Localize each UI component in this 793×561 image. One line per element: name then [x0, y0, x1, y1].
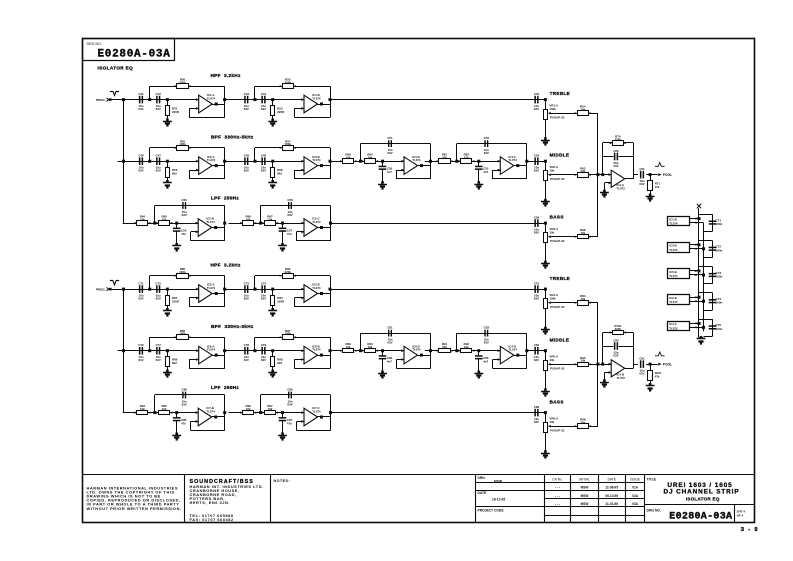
capacitor C75	[534, 285, 536, 293]
summing bus wire	[597, 113, 599, 237]
input bus wire	[123, 289, 125, 413]
capacitor C71	[139, 285, 141, 293]
wire	[646, 174, 658, 176]
capacitor C45	[534, 96, 536, 104]
resistor R83	[272, 289, 274, 295]
svg-text:63V: 63V	[639, 182, 644, 186]
svg-text:10k: 10k	[580, 359, 585, 363]
svg-text:10k: 10k	[162, 218, 167, 222]
resistor R98	[578, 424, 589, 429]
op-amp IC1-A	[199, 95, 213, 113]
feedback wire	[260, 206, 262, 224]
feedback wire	[456, 144, 458, 162]
capacitor C54	[534, 157, 536, 165]
resistor R80	[177, 274, 189, 279]
svg-text:C54: C54	[534, 154, 540, 158]
op-amp IC2-B	[304, 285, 318, 303]
svg-text:47k: 47k	[655, 185, 660, 189]
resistor R58	[272, 161, 274, 167]
svg-text:8k2: 8k2	[172, 171, 177, 175]
op-amp IC3-B	[304, 157, 318, 175]
svg-text:220k: 220k	[615, 327, 622, 331]
svg-text:8k2: 8k2	[172, 361, 177, 365]
resistor R101	[650, 364, 652, 370]
svg-text:TL072: TL072	[669, 326, 678, 330]
svg-text:63V: 63V	[244, 296, 249, 300]
op-amp IC6-A	[199, 346, 213, 364]
node R65/C55	[175, 222, 178, 225]
node C78/C79	[254, 349, 257, 352]
svg-text:10k: 10k	[268, 407, 273, 411]
node C76/C77	[148, 349, 151, 352]
resistor R52	[283, 84, 294, 89]
svg-text:DRN.: DRN.	[478, 476, 486, 480]
capacitor C85	[176, 413, 178, 418]
resistor R71	[650, 175, 652, 181]
svg-text:- - -: - - -	[555, 502, 560, 506]
capacitor C72	[156, 285, 158, 293]
svg-text:PROG,: PROG,	[96, 287, 106, 291]
capacitor C51	[388, 140, 389, 147]
svg-text:C83: C83	[484, 326, 490, 330]
ground	[0, 0, 1, 1]
wire	[514, 165, 527, 167]
svg-text:100k: 100k	[285, 142, 292, 146]
capacitor C83	[484, 330, 485, 337]
svg-text:220k: 220k	[285, 81, 292, 85]
capacitor C81	[388, 330, 389, 337]
capacitor C46	[139, 157, 141, 165]
svg-text:C79: C79	[261, 343, 267, 347]
wiper wire	[551, 364, 578, 366]
pin V+ IC1-B	[690, 218, 699, 220]
svg-text:63V: 63V	[484, 151, 489, 155]
resistor R94	[137, 411, 148, 415]
svg-text:TL074: TL074	[312, 158, 321, 162]
svg-text:C81: C81	[387, 326, 393, 330]
svg-text:63V: 63V	[534, 230, 539, 234]
op-amp IC4-D	[500, 346, 514, 364]
resistor R57	[283, 146, 294, 151]
ground	[0, 0, 1, 1]
svg-text:NOTES:: NOTES:	[274, 479, 290, 483]
op-amp power block IC1-B	[668, 217, 690, 226]
op-amp IC3-D	[404, 157, 418, 175]
svg-text:C74: C74	[261, 282, 267, 286]
potentiometer VR2-A	[545, 161, 547, 171]
node R67/C57	[281, 222, 284, 225]
capacitor C57	[282, 223, 284, 228]
svg-text:10k: 10k	[549, 420, 554, 424]
capacitor C73	[709, 273, 717, 275]
op-amp IC5-C	[304, 219, 318, 237]
resistor R92	[461, 349, 472, 353]
wire	[118, 289, 199, 291]
resistor R64	[137, 221, 148, 226]
svg-text:WITHOUT PRIOR WRITTEN PERMISSI: WITHOUT PRIOR WRITTEN PERMISSION.	[87, 506, 182, 511]
svg-text:10k: 10k	[442, 345, 447, 349]
svg-text:PVGAP-32: PVGAP-32	[550, 239, 565, 243]
resistor R91	[439, 349, 451, 353]
svg-text:TL074: TL074	[312, 96, 321, 100]
svg-text:100k: 100k	[549, 107, 556, 111]
svg-text:10k: 10k	[140, 218, 145, 222]
wire	[425, 350, 501, 352]
wire	[330, 99, 545, 101]
svg-text:16-12-95: 16-12-95	[492, 497, 505, 501]
summing bus wire	[597, 303, 599, 427]
svg-text:10k: 10k	[246, 407, 251, 411]
svg-text:63V: 63V	[613, 353, 618, 357]
node C46/C47	[148, 160, 151, 163]
wire	[329, 350, 405, 352]
resistor R82	[283, 274, 294, 279]
svg-text:DRG NO.: DRG NO.	[87, 42, 102, 46]
feedback wire	[360, 333, 362, 351]
svg-text:220R: 220R	[277, 299, 285, 303]
svg-text:DJ CHANNEL STRIP: DJ CHANNEL STRIP	[663, 488, 739, 495]
resistor R54	[578, 111, 589, 116]
svg-text:10k: 10k	[580, 169, 585, 173]
ground	[544, 137, 547, 140]
wire	[229, 223, 305, 225]
svg-text:3 - 9: 3 - 9	[741, 527, 759, 533]
svg-text:MSW: MSW	[581, 502, 589, 506]
node C43/C44	[254, 98, 257, 101]
resistor R81	[167, 289, 169, 295]
svg-text:C77: C77	[156, 343, 162, 347]
capacitor C50	[382, 161, 384, 166]
wiper wire	[588, 113, 598, 115]
svg-text:10k: 10k	[346, 345, 351, 349]
capacitor C78	[244, 347, 246, 355]
output node POOL	[658, 173, 661, 176]
node R64/R65	[153, 222, 156, 225]
ground	[0, 0, 1, 1]
svg-text:47n: 47n	[287, 232, 292, 236]
svg-text:10k: 10k	[162, 407, 167, 411]
feedback wire	[149, 86, 151, 99]
wire	[212, 104, 225, 106]
svg-text:MSW: MSW	[581, 494, 589, 498]
svg-text:TL074: TL074	[669, 274, 678, 278]
wire decoupling IC3-B	[699, 240, 713, 242]
wire	[418, 355, 431, 357]
svg-text:C75: C75	[534, 282, 540, 286]
resistor R68	[578, 235, 589, 239]
svg-text:TL074: TL074	[669, 248, 678, 252]
resistor R51	[167, 100, 169, 106]
svg-text:63V: 63V	[182, 213, 187, 217]
svg-text:4n7: 4n7	[387, 170, 392, 174]
svg-text:63V: 63V	[387, 340, 392, 344]
svg-text:MSW: MSW	[581, 486, 589, 490]
capacitor C41	[139, 96, 141, 104]
svg-text:PROG,: PROG,	[96, 98, 106, 102]
node C49/R58	[271, 160, 274, 163]
svg-text:220R: 220R	[277, 110, 285, 114]
resistor R70	[613, 141, 624, 146]
potentiometer VR1-A	[545, 100, 547, 110]
svg-text:4n7: 4n7	[387, 359, 392, 363]
pin V+ IC5-B	[690, 270, 699, 272]
svg-text:63V: 63V	[287, 213, 292, 217]
svg-text:C76: C76	[138, 343, 144, 347]
svg-text:E0280A-03A: E0280A-03A	[98, 49, 171, 61]
svg-text:TL074: TL074	[669, 222, 678, 226]
wiper wire	[588, 302, 598, 304]
wire	[110, 99, 124, 101]
input bus junction	[122, 288, 125, 291]
wire	[318, 293, 331, 295]
resistor R93	[578, 363, 589, 367]
op-amp IC1-B	[304, 95, 318, 113]
ground	[544, 327, 547, 330]
feedback wire	[154, 206, 156, 224]
svg-text:C46: C46	[138, 154, 144, 158]
resistor R89	[343, 349, 354, 353]
op-amp IC6-B	[304, 346, 318, 364]
resistor R50	[177, 84, 189, 89]
svg-text:01A: 01A	[632, 486, 639, 490]
svg-text:10k: 10k	[246, 218, 251, 222]
capacitor C88	[288, 392, 289, 399]
wire	[699, 337, 703, 339]
feedback wire	[602, 333, 604, 365]
feedback wire	[430, 333, 432, 368]
svg-text:100n: 100n	[715, 222, 722, 226]
pin V- IC3-B	[690, 248, 704, 250]
svg-text:100n: 100n	[715, 301, 722, 305]
ground	[544, 388, 547, 391]
wire decoupling IC5-B	[699, 266, 713, 268]
svg-text:63V: 63V	[484, 340, 489, 344]
pin V- IC1-B	[690, 222, 704, 224]
svg-text:ISOLATOR EQ: ISOLATOR EQ	[98, 65, 134, 70]
node C41/C42	[148, 98, 151, 101]
svg-text:PVGAP-32: PVGAP-32	[550, 428, 565, 432]
node pot top	[544, 288, 547, 291]
feedback wire	[224, 86, 226, 117]
capacitor C48	[244, 157, 246, 165]
wire	[223, 161, 304, 163]
feedback wire	[456, 333, 458, 351]
node R91/R92	[455, 349, 458, 352]
resistor R96	[243, 411, 254, 415]
svg-text:47n: 47n	[181, 421, 186, 425]
wire	[425, 161, 501, 163]
op-amp IC7-B	[198, 408, 212, 426]
wire	[229, 412, 305, 414]
svg-text:- - -: - - -	[555, 486, 560, 490]
op-amp IC5-B	[198, 219, 212, 237]
wire	[212, 165, 225, 167]
feedback wire	[224, 395, 226, 430]
rail wire	[703, 223, 705, 331]
ground	[0, 0, 1, 1]
node C73/C74	[254, 288, 257, 291]
svg-text:PVGAP-32: PVGAP-32	[550, 177, 565, 181]
svg-text:63V: 63V	[138, 107, 143, 111]
feedback wire	[330, 86, 332, 117]
svg-text:TL074: TL074	[207, 347, 216, 351]
pulse waveform symbol	[655, 163, 665, 167]
svg-text:220k: 220k	[615, 137, 622, 141]
resistor R65	[159, 221, 170, 226]
node pot top	[544, 160, 547, 163]
svg-text:10k: 10k	[549, 231, 554, 235]
svg-text:BPF 330Hz-3kHz: BPF 330Hz-3kHz	[211, 134, 254, 139]
node pot top	[544, 349, 547, 352]
svg-text:47k: 47k	[655, 374, 660, 378]
ground	[0, 0, 1, 1]
potentiometer VR4-A	[545, 289, 547, 299]
feedback wire	[254, 148, 256, 161]
ground	[0, 0, 1, 1]
non-inverting input wire	[604, 372, 611, 374]
capacitor C73	[244, 285, 246, 293]
capacitor C89	[534, 409, 536, 417]
svg-text:220k: 220k	[285, 270, 292, 274]
feedback wire	[430, 144, 432, 179]
wiper wire	[551, 236, 578, 238]
wiper wire	[551, 302, 578, 304]
resistor R90	[365, 349, 376, 353]
op-amp IC4-B	[611, 360, 625, 377]
capacitor C90	[614, 342, 616, 350]
pin V+ IC3-B	[690, 244, 699, 246]
pulse waveform symbol	[655, 352, 665, 356]
resistor R86	[167, 351, 169, 357]
capacitor C52	[478, 161, 480, 166]
node C44/R53	[271, 98, 274, 101]
ground	[700, 336, 703, 339]
ground	[0, 0, 1, 1]
resistor R56	[167, 161, 169, 167]
feedback wire	[602, 143, 604, 175]
svg-text:10k: 10k	[549, 358, 554, 362]
wiper wire	[551, 174, 578, 176]
node R90/C80	[381, 349, 384, 352]
node R92/C82	[477, 349, 480, 352]
ground	[544, 199, 547, 202]
capacitor C82	[478, 351, 480, 356]
feedback wire	[330, 276, 332, 307]
svg-text:10k: 10k	[580, 231, 585, 235]
svg-text:TREBLE: TREBLE	[550, 276, 570, 281]
svg-text:63V: 63V	[138, 296, 143, 300]
node R89/R90	[359, 349, 362, 352]
wire	[318, 227, 331, 229]
svg-text:TL074: TL074	[206, 220, 215, 224]
feedback wire	[260, 395, 262, 413]
resistor R100	[613, 331, 624, 335]
svg-text:TL074: TL074	[312, 220, 321, 224]
svg-text:10k: 10k	[346, 156, 351, 160]
feedback wire	[224, 337, 226, 368]
capacitor C56	[182, 202, 183, 209]
capacitor C79	[261, 347, 263, 355]
node R96/R97	[259, 411, 262, 414]
ground	[0, 0, 1, 1]
svg-text:C89: C89	[534, 405, 540, 409]
svg-text:C56: C56	[182, 198, 188, 202]
svg-text:PROJECT CODE: PROJECT CODE	[478, 509, 505, 513]
capacitor C55	[176, 223, 178, 228]
svg-text:100k: 100k	[179, 142, 186, 146]
feedback wire	[224, 276, 226, 307]
wire	[123, 223, 199, 225]
resistor R84	[578, 301, 589, 306]
svg-text:100n: 100n	[715, 327, 722, 331]
capacitor C77	[156, 347, 158, 355]
svg-text:10k: 10k	[580, 421, 585, 425]
svg-text:TL074: TL074	[412, 158, 421, 162]
capacitor C44	[261, 96, 263, 104]
feedback wire	[603, 142, 613, 144]
node pot top	[544, 411, 547, 414]
pin V- IC5-B	[690, 274, 704, 276]
node C47/R56	[166, 160, 169, 163]
capacitor C74	[709, 299, 717, 301]
svg-text:220k: 220k	[179, 81, 186, 85]
wire	[514, 355, 527, 357]
svg-text:63V: 63V	[138, 169, 143, 173]
svg-text:C73: C73	[244, 282, 250, 286]
svg-text:10k: 10k	[464, 345, 469, 349]
svg-text:100k: 100k	[179, 332, 186, 336]
feedback wire	[224, 148, 226, 179]
svg-text:TL072: TL072	[617, 186, 626, 190]
op-amp IC4-C	[500, 157, 514, 175]
capacitor C61	[640, 171, 642, 179]
svg-text:LPF 250Hz: LPF 250Hz	[211, 196, 239, 201]
svg-text:C53: C53	[484, 136, 490, 140]
op-amp power block IC2-B	[668, 295, 690, 305]
wire	[223, 289, 304, 291]
potentiometer VR5-A	[545, 351, 547, 361]
svg-text:100k: 100k	[285, 332, 292, 336]
pin V- IC4-C	[690, 327, 704, 329]
wiper wire	[588, 364, 598, 366]
resistor R59	[343, 159, 354, 164]
svg-text:PVGAP-32: PVGAP-32	[550, 367, 565, 371]
ground	[544, 261, 547, 264]
ground	[0, 0, 1, 1]
svg-text:220k: 220k	[179, 270, 186, 274]
resistor R95	[159, 411, 170, 415]
wire	[330, 350, 338, 352]
svg-text:10k: 10k	[549, 169, 554, 173]
svg-text:BASS: BASS	[550, 399, 564, 404]
power rail symbol	[697, 204, 701, 208]
svg-text:OF 4: OF 4	[737, 514, 744, 518]
svg-text:C84: C84	[534, 343, 540, 347]
svg-text:63V: 63V	[182, 402, 187, 406]
node R60/C50	[381, 160, 384, 163]
node R94/R95	[153, 411, 156, 414]
svg-text:ISOLATOR EQ: ISOLATOR EQ	[686, 496, 720, 501]
svg-text:10k: 10k	[268, 218, 273, 222]
svg-text:PVGAP-32: PVGAP-32	[550, 305, 565, 309]
svg-text:INITIAL: INITIAL	[579, 478, 590, 482]
svg-text:TL074: TL074	[509, 158, 518, 162]
svg-text:C60: C60	[613, 149, 619, 153]
svg-text:TREBLE: TREBLE	[550, 91, 570, 96]
wiper wire	[588, 426, 598, 428]
svg-text:BASS: BASS	[550, 215, 564, 220]
svg-text:10k: 10k	[368, 345, 373, 349]
